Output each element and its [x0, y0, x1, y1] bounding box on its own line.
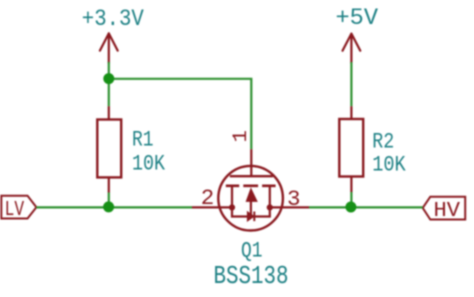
svg-text:BSS138: BSS138	[214, 261, 289, 291]
wire: +5V pin to R2 top	[350, 62, 352, 106]
junction node on LV rail	[103, 201, 114, 212]
Q1 body diode	[247, 212, 254, 221]
global label LV	[1, 196, 36, 222]
wire: Q1 pin 3 to HV	[309, 206, 423, 208]
Q1 source stem	[231, 186, 233, 208]
Q1 internal junction dot (pin 2 side)	[229, 204, 235, 210]
wire: +3.3V pin to R1 top	[108, 62, 110, 106]
svg-text:1: 1	[230, 130, 253, 142]
Q1 body circle	[218, 166, 283, 231]
transistor Q1 (BSS138 MOSFET)	[192, 130, 309, 230]
svg-text:10K: 10K	[372, 152, 406, 177]
Q1 substrate arrow	[246, 189, 257, 202]
power symbol +3.3V arrow	[100, 33, 118, 63]
svg-text:Q1: Q1	[241, 237, 263, 263]
wire: R2 bottom to HV rail	[350, 192, 352, 207]
Q1 pin 2 lead	[192, 206, 232, 208]
resistor R2 body	[339, 119, 363, 177]
wire: node to Q1 gate	[109, 79, 252, 149]
Q1 gate pin lead	[250, 149, 252, 176]
wire: R1 bottom to LV rail	[108, 193, 110, 208]
resistor R1 pins	[108, 106, 110, 192]
Q1 internal junction dot (pin 3 side)	[267, 204, 273, 210]
svg-text:10K: 10K	[132, 152, 166, 177]
power symbol +5V arrow	[343, 34, 361, 63]
Q1 drain stem	[269, 186, 271, 208]
Q1 pin 3 lead	[270, 206, 309, 208]
svg-text:+5V: +5V	[336, 5, 379, 31]
Q1 substrate stem	[250, 201, 252, 216]
wire: LV to Q1 pin 2	[36, 206, 192, 208]
Q1 body rail	[232, 207, 270, 216]
svg-text:+3.3V: +3.3V	[82, 6, 144, 32]
svg-text:R1: R1	[132, 128, 154, 153]
global label HV	[423, 197, 466, 223]
Q1 gate bar	[230, 175, 273, 177]
svg-text:2: 2	[201, 185, 215, 211]
svg-text:R2: R2	[372, 130, 394, 155]
svg-text:LV: LV	[5, 198, 25, 222]
resistor R1 body	[97, 120, 121, 178]
junction node on HV rail	[345, 202, 356, 213]
svg-text:3: 3	[287, 186, 301, 212]
junction node on +3.3V branch	[103, 73, 114, 84]
resistor R2 pins	[350, 106, 352, 192]
Q1 channel bars	[226, 185, 276, 188]
svg-text:HV: HV	[434, 199, 461, 223]
